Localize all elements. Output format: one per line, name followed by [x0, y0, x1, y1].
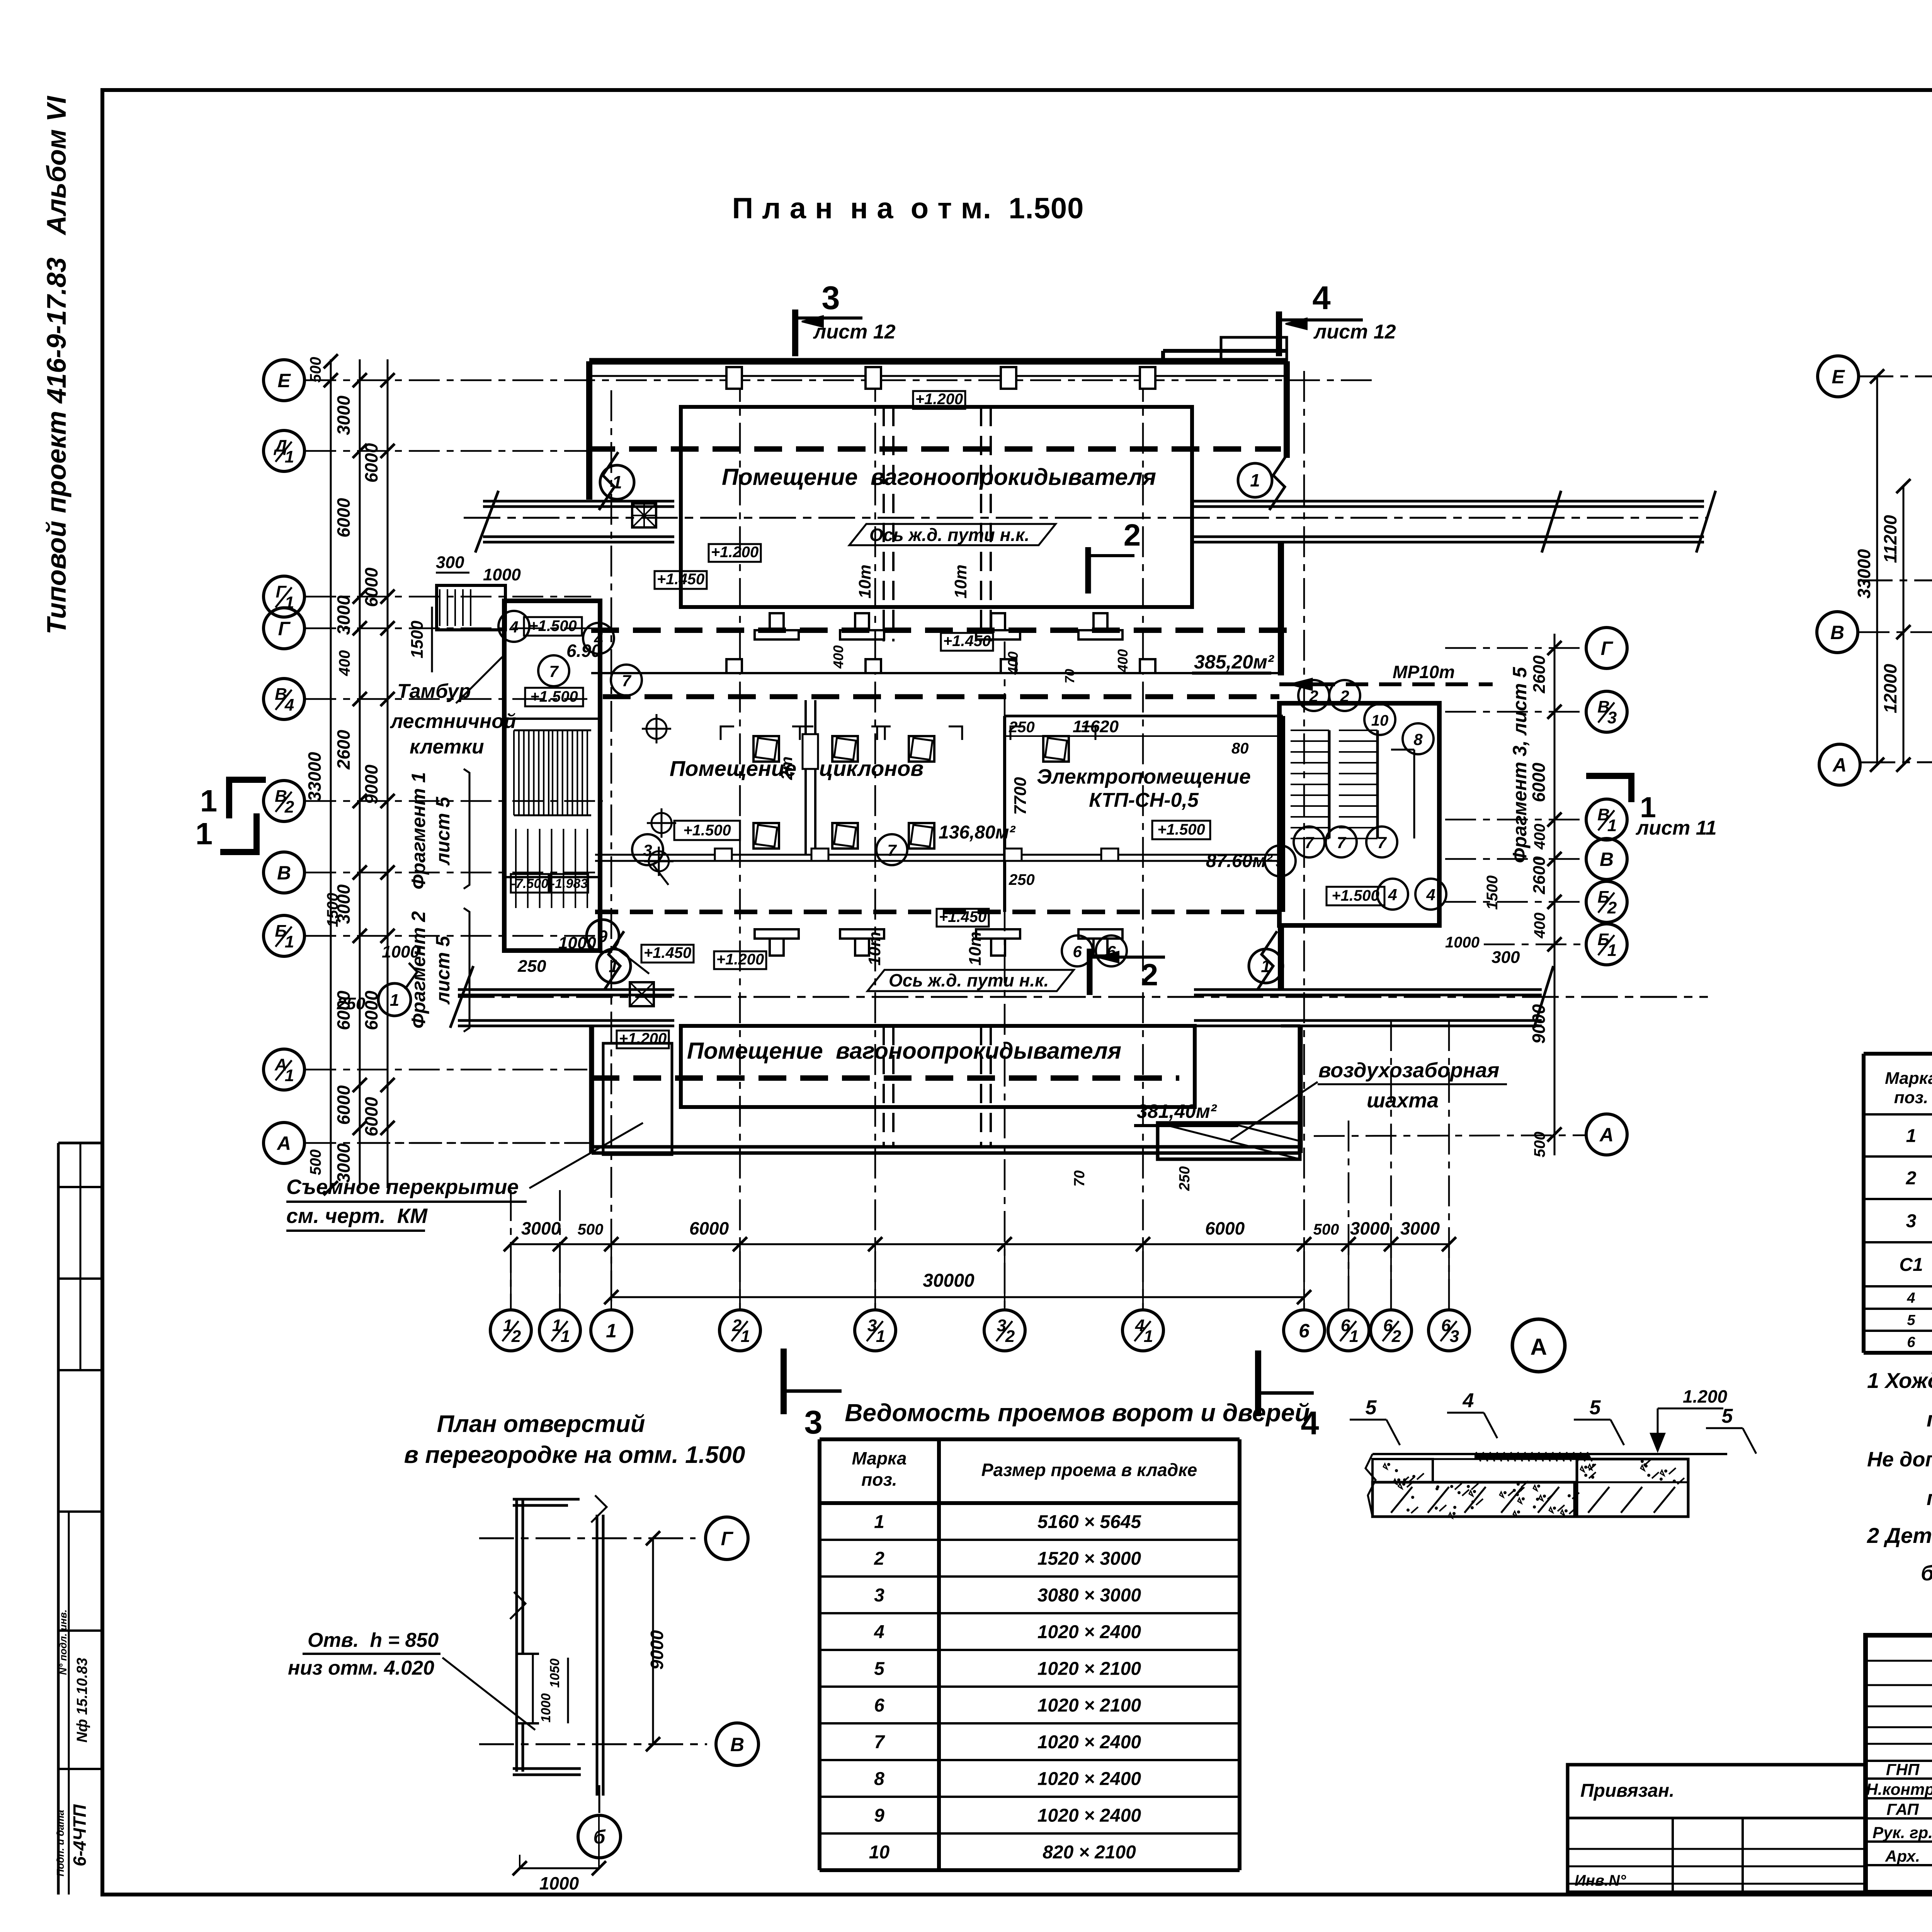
- svg-text:Г: Г: [721, 1528, 734, 1549]
- svg-text:низ отм. 4.020: низ отм. 4.020: [288, 1657, 434, 1679]
- svg-text:9: 9: [874, 1806, 884, 1826]
- svg-text:1: 1: [503, 1316, 512, 1335]
- svg-text:5: 5: [874, 1659, 885, 1679]
- svg-text:3: 3: [1607, 708, 1617, 727]
- svg-text:В: В: [730, 1734, 744, 1755]
- svg-text:лист 12: лист 12: [1313, 321, 1396, 343]
- svg-text:6: 6: [1907, 1334, 1915, 1350]
- svg-text:1: 1: [1250, 470, 1260, 490]
- svg-text:2: 2: [1309, 687, 1318, 705]
- svg-text:1020 × 2100: 1020 × 2100: [1037, 1659, 1141, 1679]
- svg-text:Nф 15.10.83: Nф 15.10.83: [74, 1658, 90, 1743]
- svg-text:250: 250: [1009, 871, 1035, 888]
- svg-text:5: 5: [1907, 1312, 1915, 1328]
- svg-text:клетки: клетки: [410, 736, 484, 758]
- svg-text:ГНП: ГНП: [1886, 1760, 1920, 1779]
- svg-text:Съемное перекрытие: Съемное перекрытие: [286, 1175, 519, 1199]
- svg-text:500: 500: [1531, 1132, 1548, 1158]
- svg-text:1520 × 3000: 1520 × 3000: [1037, 1549, 1141, 1569]
- svg-text:Инв.N°: Инв.N°: [1575, 1872, 1626, 1889]
- svg-text:Е: Е: [1832, 366, 1845, 388]
- svg-text:1: 1: [1349, 1327, 1359, 1346]
- svg-text:1: 1: [876, 1327, 885, 1346]
- svg-text:400: 400: [830, 645, 846, 669]
- svg-text:33000: 33000: [304, 752, 325, 801]
- svg-text:3: 3: [1450, 1327, 1459, 1346]
- svg-text:Рук. гр.: Рук. гр.: [1872, 1823, 1932, 1842]
- svg-text:поз.: поз.: [861, 1469, 897, 1490]
- svg-text:2600: 2600: [333, 730, 354, 770]
- svg-text:3: 3: [867, 1316, 877, 1335]
- svg-text:+1.200: +1.200: [711, 544, 759, 561]
- svg-text:+1.450: +1.450: [943, 633, 991, 650]
- svg-text:лист 11: лист 11: [1635, 817, 1717, 839]
- svg-text:4: 4: [1463, 1389, 1474, 1412]
- svg-text:5: 5: [1722, 1405, 1733, 1427]
- svg-text:+1.200: +1.200: [716, 951, 764, 968]
- svg-text:в перегородке на отм. 1.500: в перегородке на отм. 1.500: [404, 1442, 745, 1468]
- svg-text:400: 400: [336, 650, 353, 677]
- svg-text:КТП-СН-0,5: КТП-СН-0,5: [1089, 789, 1199, 811]
- svg-text:1: 1: [196, 816, 213, 851]
- svg-text:А: А: [276, 1133, 291, 1154]
- svg-text:3000: 3000: [1350, 1218, 1390, 1238]
- svg-text:6: 6: [1073, 942, 1082, 961]
- svg-text:В: В: [277, 862, 291, 884]
- svg-text:4: 4: [1135, 1316, 1145, 1335]
- svg-text:1020 × 2400: 1020 × 2400: [1037, 1732, 1141, 1753]
- svg-text:Подп. и дата: Подп. и дата: [54, 1810, 66, 1876]
- svg-text:воздухозаборная: воздухозаборная: [1318, 1059, 1499, 1082]
- svg-text:+1.500: +1.500: [683, 822, 731, 839]
- svg-text:300: 300: [436, 553, 464, 572]
- svg-text:6-4ЧТП: 6-4ЧТП: [70, 1804, 90, 1866]
- svg-text:1: 1: [612, 472, 622, 492]
- svg-text:8: 8: [874, 1769, 884, 1789]
- svg-text:7: 7: [1337, 833, 1346, 852]
- svg-text:3: 3: [643, 841, 652, 859]
- svg-text:+1.500: +1.500: [530, 688, 578, 705]
- svg-text:6000: 6000: [333, 498, 354, 537]
- svg-text:1: 1: [874, 1512, 884, 1532]
- svg-text:6000: 6000: [361, 567, 381, 607]
- svg-text:В: В: [1830, 622, 1844, 643]
- svg-text:Помещение вагоноопрокидывател: Помещение вагоноопрокидывателя: [722, 464, 1156, 490]
- svg-text:+1.450: +1.450: [657, 571, 704, 588]
- svg-text:поз.: поз.: [1894, 1088, 1928, 1107]
- svg-text:4: 4: [509, 618, 518, 636]
- svg-text:1: 1: [390, 991, 399, 1010]
- svg-text:2600: 2600: [1530, 856, 1549, 895]
- svg-text:Ось ж.д. пути н.к.: Ось ж.д. пути н.к.: [889, 970, 1049, 990]
- svg-text:9000: 9000: [361, 764, 381, 804]
- svg-text:1: 1: [609, 956, 619, 976]
- svg-text:3: 3: [821, 280, 840, 316]
- svg-text:7: 7: [549, 662, 559, 680]
- svg-text:80: 80: [1231, 740, 1249, 757]
- svg-text:1020 × 2400: 1020 × 2400: [1037, 1769, 1141, 1789]
- svg-text:250: 250: [1177, 1166, 1193, 1191]
- svg-text:4: 4: [1388, 886, 1397, 904]
- svg-text:3: 3: [997, 1316, 1006, 1335]
- svg-text:3: 3: [1906, 1211, 1917, 1231]
- svg-text:-7.500: -7.500: [511, 876, 548, 891]
- svg-text:6000: 6000: [361, 1097, 381, 1136]
- svg-text:300: 300: [1492, 948, 1520, 967]
- svg-text:6: 6: [874, 1696, 884, 1716]
- svg-text:70: 70: [1071, 1170, 1088, 1187]
- svg-text:6: 6: [1299, 1320, 1310, 1342]
- svg-text:3: 3: [874, 1585, 884, 1606]
- svg-text:1 Хождение по легкосбрасыва: 1 Хождение по легкосбрасываемой кровле д…: [1867, 1368, 1932, 1393]
- svg-text:1: 1: [200, 784, 218, 818]
- svg-text:1000: 1000: [539, 1693, 553, 1723]
- svg-text:3000: 3000: [333, 395, 354, 435]
- svg-text:лестничной: лестничной: [389, 710, 516, 733]
- svg-text:6000: 6000: [361, 443, 381, 483]
- svg-text:7: 7: [622, 672, 631, 690]
- svg-text:Е: Е: [277, 370, 291, 391]
- svg-text:1: 1: [1261, 956, 1271, 976]
- svg-text:381,40м²: 381,40м²: [1137, 1100, 1217, 1122]
- svg-text:3000: 3000: [333, 1143, 354, 1183]
- svg-text:Г: Г: [1601, 638, 1614, 659]
- svg-text:400: 400: [1005, 651, 1021, 675]
- svg-text:10т: 10т: [855, 565, 874, 599]
- svg-text:лист 5: лист 5: [432, 796, 454, 866]
- svg-text:см. черт. КМ: см. черт. КМ: [286, 1204, 428, 1228]
- svg-text:11620: 11620: [1073, 717, 1119, 736]
- svg-text:2: 2: [1141, 957, 1158, 992]
- svg-text:7: 7: [1304, 833, 1314, 852]
- svg-text:5160 × 5645: 5160 × 5645: [1037, 1512, 1142, 1532]
- svg-text:Отв. h = 850: Отв. h = 850: [308, 1629, 439, 1651]
- svg-text:Электропомещение: Электропомещение: [1037, 765, 1251, 788]
- svg-text:385,20м²: 385,20м²: [1194, 651, 1274, 673]
- svg-text:10т: 10т: [966, 932, 985, 966]
- svg-text:30000: 30000: [923, 1270, 975, 1291]
- svg-text:2600: 2600: [1530, 655, 1549, 694]
- svg-text:В: В: [1600, 849, 1614, 870]
- svg-text:2: 2: [1906, 1168, 1917, 1189]
- svg-text:2 Детали 16, 17 по серии: 2 Детали 16, 17 по серии 2.460-4, вып. 0…: [1867, 1523, 1932, 1548]
- svg-text:применение тачек для перево: применение тачек для перевозки материало…: [1927, 1486, 1932, 1510]
- svg-text:-1.983: -1.983: [551, 876, 588, 891]
- svg-text:А: А: [1832, 754, 1847, 776]
- svg-text:10т: 10т: [865, 932, 884, 966]
- svg-text:Н.контр.: Н.контр.: [1866, 1780, 1932, 1798]
- svg-text:2: 2: [1340, 687, 1349, 705]
- svg-text:500: 500: [307, 357, 324, 383]
- svg-text:А: А: [1599, 1124, 1614, 1146]
- svg-text:1.200: 1.200: [1683, 1386, 1728, 1406]
- svg-text:Помещение вагоноопрокидывател: Помещение вагоноопрокидывателя: [687, 1038, 1121, 1064]
- svg-text:Типовой проект 416-9-17.83 А: Типовой проект 416-9-17.83 Альбом VI: [41, 95, 71, 634]
- svg-text:1000: 1000: [483, 565, 521, 584]
- svg-text:1: 1: [1144, 1327, 1153, 1346]
- svg-text:70: 70: [1063, 669, 1077, 684]
- svg-text:400: 400: [1115, 649, 1131, 673]
- svg-text:3: 3: [804, 1404, 822, 1441]
- svg-text:1050: 1050: [548, 1658, 562, 1688]
- svg-text:820 × 2100: 820 × 2100: [1043, 1842, 1136, 1863]
- svg-text:1: 1: [561, 1327, 570, 1346]
- svg-text:3000: 3000: [333, 884, 354, 924]
- svg-text:1: 1: [606, 1320, 617, 1342]
- svg-text:3000: 3000: [521, 1218, 561, 1238]
- svg-text:500: 500: [578, 1221, 604, 1238]
- svg-text:+1.500: +1.500: [1332, 887, 1379, 904]
- svg-text:лист 5: лист 5: [432, 935, 454, 1005]
- svg-text:1: 1: [552, 1316, 561, 1335]
- svg-text:1000: 1000: [558, 934, 596, 952]
- svg-text:500: 500: [307, 1150, 324, 1175]
- svg-text:без утеплителя.: без утеплителя.: [1921, 1561, 1932, 1585]
- svg-text:ГАП: ГАП: [1886, 1800, 1919, 1818]
- svg-text:1: 1: [1906, 1126, 1917, 1146]
- svg-text:С1: С1: [1899, 1255, 1923, 1275]
- svg-text:лист 12: лист 12: [813, 321, 896, 343]
- svg-text:Фрагмент 3, лист 5: Фрагмент 3, лист 5: [1509, 667, 1531, 863]
- svg-text:7: 7: [874, 1732, 885, 1753]
- svg-text:N° подл. инв.: N° подл. инв.: [57, 1609, 69, 1675]
- svg-text:План отверстий: План отверстий: [437, 1411, 645, 1437]
- svg-text:33000: 33000: [1854, 549, 1874, 599]
- svg-text:1020 × 2400: 1020 × 2400: [1037, 1806, 1141, 1826]
- svg-text:10: 10: [869, 1842, 890, 1863]
- svg-text:500: 500: [1313, 1221, 1339, 1238]
- svg-text:2т: 2т: [777, 757, 796, 781]
- svg-text:6000: 6000: [689, 1218, 729, 1238]
- svg-text:б: б: [594, 1826, 606, 1848]
- svg-text:3000: 3000: [1400, 1218, 1440, 1238]
- svg-text:11200: 11200: [1880, 515, 1900, 563]
- svg-text:4: 4: [1312, 280, 1330, 316]
- svg-text:4: 4: [1906, 1290, 1915, 1306]
- svg-text:по ходовым настилам: по ходовым настилам: [1927, 1407, 1932, 1431]
- svg-text:шахта: шахта: [1367, 1089, 1439, 1112]
- svg-text:400: 400: [1531, 824, 1548, 850]
- svg-text:12000: 12000: [1880, 664, 1900, 713]
- svg-text:6000: 6000: [1205, 1218, 1245, 1238]
- svg-text:1: 1: [1607, 816, 1617, 835]
- svg-text:Арх.: Арх.: [1885, 1847, 1920, 1865]
- svg-text:9: 9: [598, 927, 608, 946]
- svg-text:Марка: Марка: [852, 1448, 906, 1468]
- svg-text:9000: 9000: [1529, 1004, 1549, 1044]
- svg-text:3080 × 3000: 3080 × 3000: [1037, 1585, 1141, 1606]
- svg-text:1500: 1500: [1484, 876, 1501, 910]
- svg-text:4: 4: [874, 1622, 884, 1643]
- svg-text:Не допускается на указанной: Не допускается на указанной кровле с асб…: [1867, 1448, 1932, 1471]
- svg-text:Марка: Марка: [1885, 1069, 1932, 1088]
- svg-text:5: 5: [1590, 1396, 1601, 1419]
- svg-text:МР10т: МР10т: [1393, 662, 1455, 682]
- svg-text:Привязан.: Привязан.: [1580, 1781, 1674, 1801]
- svg-text:6000: 6000: [1529, 762, 1549, 802]
- svg-text:1500: 1500: [408, 621, 427, 658]
- svg-text:1020 × 2400: 1020 × 2400: [1037, 1622, 1141, 1643]
- svg-text:7: 7: [1377, 833, 1387, 852]
- svg-text:250: 250: [517, 957, 546, 976]
- svg-text:Фрагмент 2: Фрагмент 2: [408, 911, 429, 1029]
- svg-text:6000: 6000: [333, 1085, 354, 1125]
- svg-text:8: 8: [1413, 730, 1423, 748]
- svg-text:5: 5: [1366, 1396, 1377, 1419]
- svg-text:1: 1: [741, 1327, 750, 1346]
- svg-text:400: 400: [1531, 913, 1548, 939]
- svg-text:10: 10: [1371, 712, 1389, 729]
- svg-text:3000: 3000: [333, 595, 354, 635]
- svg-text:Размер проема в кладке: Размер проема в кладке: [981, 1460, 1197, 1480]
- svg-text:1: 1: [285, 1066, 294, 1085]
- svg-text:7: 7: [887, 841, 897, 859]
- svg-text:+1.500: +1.500: [1157, 821, 1205, 838]
- svg-text:+1.200: +1.200: [915, 391, 963, 408]
- svg-text:7700: 7700: [1011, 777, 1030, 815]
- svg-text:1: 1: [1607, 941, 1617, 960]
- svg-text:Г: Г: [278, 618, 291, 639]
- svg-text:П л а н н а о т м. 1.500: П л а н н а о т м. 1.500: [732, 192, 1084, 225]
- svg-text:+1.450: +1.450: [644, 944, 691, 961]
- svg-text:10т: 10т: [951, 565, 970, 599]
- svg-text:1: 1: [285, 932, 294, 951]
- svg-text:250: 250: [1009, 719, 1035, 736]
- svg-text:1: 1: [285, 447, 294, 466]
- svg-text:9000: 9000: [647, 1630, 667, 1670]
- svg-text:1000: 1000: [1445, 934, 1480, 951]
- svg-text:1000: 1000: [539, 1873, 579, 1893]
- svg-text:6000: 6000: [361, 990, 381, 1030]
- svg-text:2: 2: [874, 1549, 884, 1569]
- svg-text:Ведомость проемов ворот и двер: Ведомость проемов ворот и дверей: [845, 1399, 1310, 1427]
- svg-text:4: 4: [1426, 886, 1435, 904]
- svg-text:А: А: [1530, 1334, 1547, 1360]
- svg-text:Фрагмент 1: Фрагмент 1: [408, 772, 429, 889]
- svg-text:4: 4: [594, 630, 603, 648]
- svg-text:2: 2: [1124, 518, 1141, 552]
- svg-text:1020 × 2100: 1020 × 2100: [1037, 1696, 1141, 1716]
- svg-text:+1.500: +1.500: [529, 617, 577, 634]
- svg-text:6000: 6000: [333, 990, 354, 1030]
